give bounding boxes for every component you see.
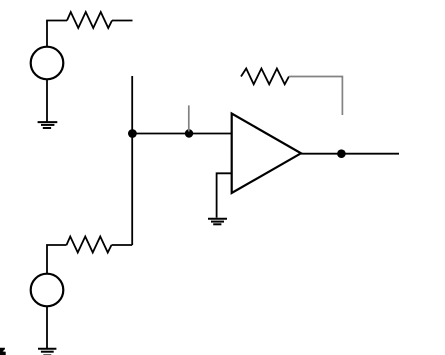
- wire gray stub above node B: [188, 105, 190, 131]
- wire vertical bus from free stub through node A down to R2: [131, 76, 133, 245]
- wire from V2 bottom to ground: [46, 306, 48, 348]
- node A (junction dot): [128, 129, 137, 138]
- wire from R1 right end (free stub): [112, 20, 133, 22]
- voltage source V1: [31, 47, 64, 80]
- wire from R2 right end to vertical bus: [112, 244, 133, 246]
- corner glyph (clipped mark at bottom-left): [0, 348, 6, 355]
- wire from node A to op-amp noninverting input: [132, 133, 232, 135]
- node C (output junction dot): [337, 149, 346, 158]
- node B (junction dot): [185, 129, 193, 137]
- wire from V2 plus terminal up to R2: [47, 245, 67, 274]
- wire from V1 bottom to ground: [46, 79, 48, 122]
- resistor R3: [241, 69, 289, 85]
- wire from op-amp inverting input to ground: [217, 173, 232, 217]
- voltage source V2: [31, 274, 64, 307]
- resistor R2: [67, 237, 112, 253]
- wire from V1 plus terminal up to R1: [47, 21, 67, 47]
- wire op-amp output: [301, 153, 399, 155]
- ground (V1): [38, 122, 58, 128]
- op-amp U1: [232, 114, 301, 194]
- ground (V2): [38, 349, 56, 355]
- wire gray from R3 right end, bending down (free stub): [289, 77, 343, 116]
- resistor R1: [67, 12, 112, 28]
- ground (op-amp inverting input): [208, 219, 227, 225]
